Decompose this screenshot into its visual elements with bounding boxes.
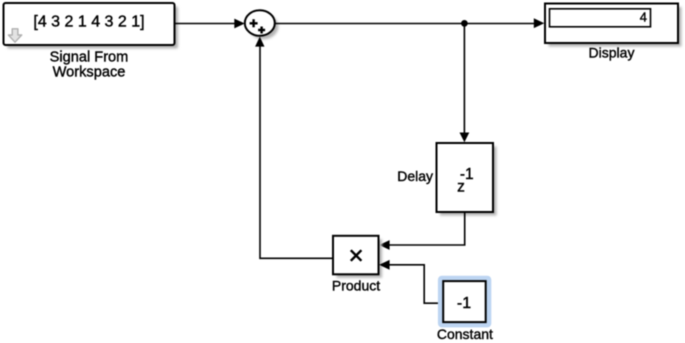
sum block U_sum bbox=[245, 10, 279, 39]
label Delay bbox=[397, 168, 433, 184]
svg-text:Delay: Delay bbox=[397, 168, 433, 184]
block Constant bbox=[438, 276, 491, 328]
svg-text:-1: -1 bbox=[457, 295, 471, 312]
label Signal From Workspace bbox=[50, 50, 129, 81]
svg-text:Workspace: Workspace bbox=[53, 65, 126, 81]
block Delay bbox=[437, 143, 497, 216]
label Constant bbox=[437, 326, 493, 342]
wire Sum to Display bbox=[275, 18, 545, 28]
node junction bbox=[461, 20, 468, 27]
wire Delay to Product bbox=[379, 212, 465, 250]
svg-text:Product: Product bbox=[332, 278, 380, 294]
svg-text:[4 3 2 1 4 3 2 1]: [4 3 2 1 4 3 2 1] bbox=[33, 14, 144, 31]
svg-text:Constant: Constant bbox=[437, 326, 493, 342]
wire Signal From Workspace to Sum bbox=[175, 19, 245, 29]
block Signal From Workspace bbox=[4, 3, 179, 49]
wire Product to Sum feedback bbox=[255, 37, 333, 259]
label Display bbox=[589, 44, 635, 60]
block Product bbox=[333, 236, 382, 278]
icon workspace input arrow bbox=[8, 29, 21, 42]
svg-text:z: z bbox=[457, 179, 465, 196]
wire Constant to Product bbox=[379, 260, 443, 303]
svg-text:Display: Display bbox=[589, 44, 635, 60]
svg-text:Signal From: Signal From bbox=[50, 50, 129, 66]
block Display bbox=[545, 4, 682, 47]
wire junction to Delay bbox=[460, 23, 470, 142]
svg-text:4: 4 bbox=[640, 10, 647, 25]
label Product bbox=[332, 278, 380, 294]
